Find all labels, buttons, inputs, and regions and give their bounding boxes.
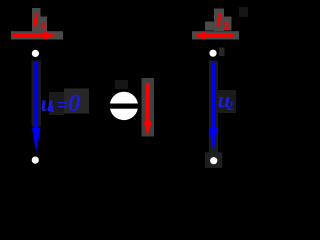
svg-text:i: i (33, 11, 38, 30)
backdrop strip of source current arrow (142, 78, 155, 137)
node bottom-right (210, 157, 217, 164)
current arrow i2 (red, pointing left) (194, 31, 235, 39)
backdrop box of i1 glyph stem (32, 8, 41, 32)
svg-text:1: 1 (41, 21, 47, 33)
svg-text:2: 2 (227, 98, 234, 113)
voltage arrow u2 (blue, pointing down) (209, 62, 218, 152)
backdrop band of current arrow i1 (11, 31, 63, 39)
small backdrop box right of top-right node (219, 48, 225, 57)
node top-left (32, 50, 39, 57)
svg-text:1: 1 (50, 103, 56, 115)
svg-text:=: = (57, 95, 68, 117)
svg-text:0: 0 (68, 90, 81, 117)
backdrop boxes of label u1=0 (49, 92, 64, 115)
backdrop box of i1 subscript (41, 17, 48, 32)
faint box top-right corner (239, 7, 248, 17)
node top-right (209, 50, 216, 57)
svg-text:i: i (217, 11, 222, 30)
backdrop boxes of i2 glyph (205, 22, 214, 31)
svg-text:2: 2 (224, 21, 230, 33)
current arrow i1 (red, pointing right) (13, 31, 57, 39)
backdrop box of bottom right node (205, 152, 222, 168)
source current arrow (red, pointing down) (144, 83, 152, 136)
node bottom-left (32, 157, 39, 164)
backdrop strip of voltage arrow u2 (209, 61, 218, 153)
backdrop strip of voltage arrow u1 (32, 61, 42, 127)
voltage arrow u1 (blue, pointing down) (32, 62, 41, 153)
faint smudge above source circle (115, 80, 128, 89)
backdrop band of current arrow i2 (192, 31, 239, 39)
backdrop box of label u2 (216, 90, 236, 113)
current source symbol (circle with horizontal bar) (108, 92, 140, 120)
